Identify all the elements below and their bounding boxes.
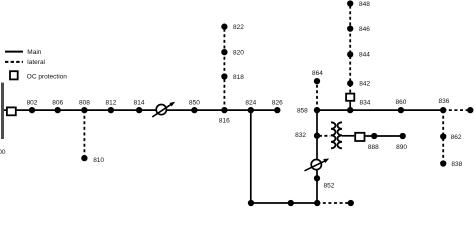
svg-text:888: 888	[368, 144, 379, 151]
svg-text:826: 826	[272, 100, 283, 107]
svg-text:832: 832	[295, 132, 306, 139]
svg-text:890: 890	[396, 144, 407, 151]
svg-text:852: 852	[324, 182, 335, 189]
svg-text:818: 818	[233, 74, 244, 81]
svg-text:844: 844	[359, 52, 370, 59]
svg-text:848: 848	[359, 1, 370, 8]
svg-text:858: 858	[297, 107, 308, 114]
svg-text:810: 810	[93, 157, 104, 164]
svg-text:lateral: lateral	[27, 59, 45, 66]
svg-text:860: 860	[395, 99, 406, 106]
svg-text:862: 862	[451, 134, 462, 141]
svg-text:Main: Main	[27, 49, 41, 56]
svg-text:808: 808	[79, 100, 90, 107]
svg-text:846: 846	[359, 26, 370, 33]
svg-text:834: 834	[360, 100, 371, 107]
svg-text:800: 800	[0, 149, 6, 156]
svg-text:850: 850	[189, 100, 200, 107]
svg-text:812: 812	[105, 100, 116, 107]
svg-text:806: 806	[52, 100, 63, 107]
svg-text:822: 822	[233, 24, 244, 31]
svg-text:824: 824	[245, 100, 256, 107]
svg-text:802: 802	[27, 100, 38, 107]
svg-text:838: 838	[451, 161, 462, 168]
svg-text:OC protection: OC protection	[27, 74, 67, 81]
svg-text:820: 820	[233, 50, 244, 57]
svg-text:842: 842	[359, 81, 370, 88]
svg-text:816: 816	[219, 118, 230, 125]
svg-text:814: 814	[134, 100, 145, 107]
svg-text:836: 836	[438, 98, 449, 105]
svg-text:864: 864	[312, 70, 323, 77]
